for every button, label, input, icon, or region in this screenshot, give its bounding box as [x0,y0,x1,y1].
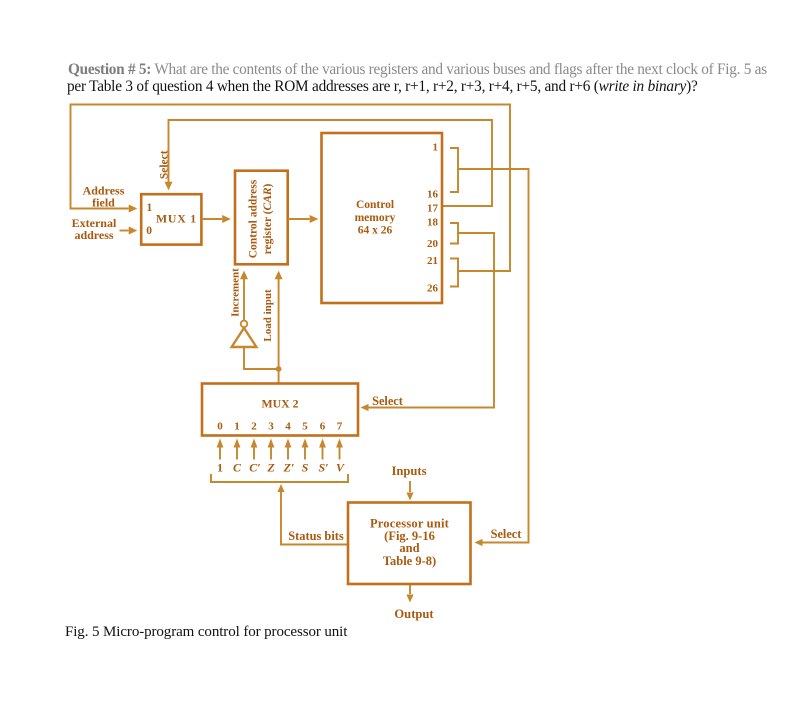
label: Address field [83,184,125,210]
wire: output arrow from processor unit [406,585,413,603]
svg-text:S′: S′ [318,461,328,475]
svg-text:0: 0 [217,421,223,433]
svg-text:Select: Select [372,394,404,408]
wire: CAR output to control memory [288,215,318,223]
svg-text:1: 1 [147,202,153,214]
wires: eight MUX2 input arrows [217,439,343,460]
svg-text:register (CAR): register (CAR) [262,183,274,254]
wire: MUX2 select (memory bits 18-20) [361,233,495,411]
svg-text:MUX 1: MUX 1 [156,211,197,225]
svg-text:1: 1 [234,421,240,433]
svg-text:16: 16 [427,189,439,201]
label: External address [72,216,117,242]
MUX 1 [141,194,201,244]
svg-text:2: 2 [251,421,257,433]
svg-text:1: 1 [433,142,439,154]
svg-text:7: 7 [337,421,343,433]
bracket: status-bit bus under MUX2 inputs [211,474,348,482]
control memory [322,133,443,303]
svg-text:Select: Select [491,527,523,541]
svg-text:Output: Output [394,607,434,621]
svg-text:Increment: Increment [230,268,242,317]
wire: address-field feedback loop (memory bits 21-26 to MUX1 input 1) [71,105,511,272]
increment circuit (bubble + triangle) [232,271,276,369]
svg-text:6: 6 [320,421,326,433]
svg-text:3: 3 [268,421,274,433]
svg-text:Z: Z [266,461,275,475]
svg-text:5: 5 [302,421,308,433]
labels: status flag inputs 1 C C' Z Z' S S' V [217,461,345,475]
svg-text:21: 21 [427,255,438,267]
wire: load input (MUX2 output up to CAR) [275,271,283,384]
wire: MUX1 output to CAR [202,215,231,223]
wire: status bits from processor unit to MUX2 bracket [277,484,348,545]
MUX 2 [202,384,358,436]
junction: load-input / increment tap [276,366,282,372]
svg-text:Control: Control [356,199,394,211]
svg-text:4: 4 [285,421,291,433]
svg-text:Load input: Load input [262,289,274,342]
svg-text:Inputs: Inputs [391,464,426,478]
svg-text:S: S [302,461,309,475]
svg-text:C: C [233,461,242,475]
processor unit [348,503,471,585]
bracket: control memory outputs 21-26 [450,259,458,287]
svg-text:18: 18 [427,217,439,229]
svg-text:20: 20 [427,238,439,250]
wire: inputs arrow into processor unit [406,481,413,501]
svg-text:V: V [336,461,345,475]
svg-text:Select: Select [159,150,171,179]
wire: processor-unit select (memory bits 1-16) [458,169,529,546]
svg-text:Z′: Z′ [283,461,295,475]
svg-text:17: 17 [427,203,439,215]
svg-text:Control address: Control address [248,179,260,258]
register CAR [235,171,288,265]
svg-text:64 x 26: 64 x 26 [358,225,393,237]
svg-text:26: 26 [427,283,439,295]
svg-text:1: 1 [217,461,223,475]
svg-text:field: field [92,195,115,209]
svg-text:C′: C′ [249,461,260,475]
wire: external address into MUX1 input 0 [120,227,138,235]
svg-text:Status bits: Status bits [288,529,344,543]
bracket: control memory outputs 1-16 [450,148,458,192]
svg-text:Table 9-8): Table 9-8) [383,554,436,568]
bracket: control memory outputs 18-20 [450,223,458,244]
svg-text:MUX 2: MUX 2 [261,397,298,411]
wire: MUX1 select (memory bit 17) [165,120,493,206]
svg-text:memory: memory [355,212,396,224]
svg-text:address: address [74,228,113,242]
svg-text:0: 0 [146,225,152,237]
